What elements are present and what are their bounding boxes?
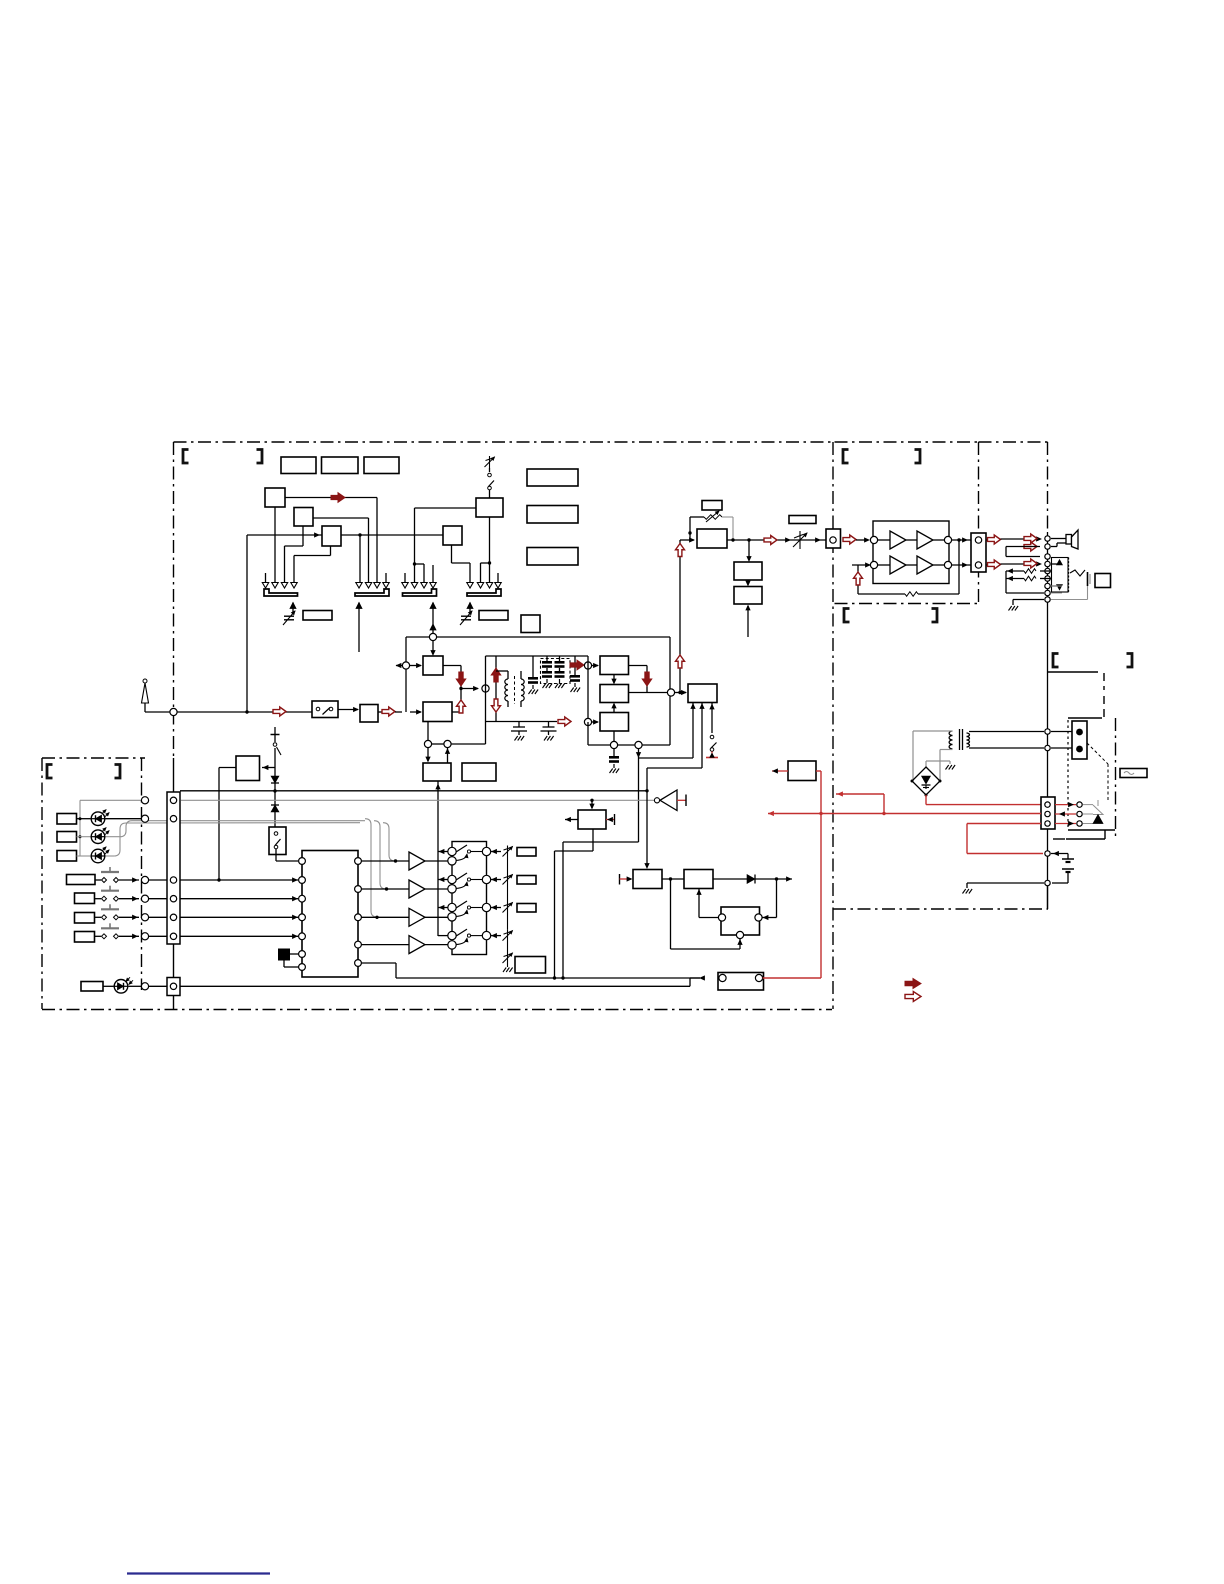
amp internal wires — [878, 539, 890, 541]
open red up arrow on 680 lower — [676, 655, 685, 668]
solid red down arrow at 647 — [642, 672, 652, 686]
ground at jack — [1013, 599, 1044, 601]
LED label box 2 — [57, 832, 77, 843]
amp output node R — [944, 536, 951, 543]
red battery loop — [967, 823, 1041, 825]
arrow junction into node — [461, 688, 478, 690]
filter caps inside dashed box — [546, 656, 548, 661]
bus group 2 wiper arrow long shaft — [356, 603, 362, 609]
trimmer cap group 1 — [284, 615, 294, 617]
small label box above decoder — [702, 501, 722, 511]
border: bottom-right chassis dash-dot — [833, 908, 1048, 910]
LED D3 — [77, 855, 91, 857]
power amp IC outline — [873, 521, 949, 584]
block E small — [443, 526, 462, 545]
IC bottom pin wire — [361, 962, 396, 964]
node at LC frame left — [482, 685, 489, 692]
jack switch contacts gray — [1051, 585, 1062, 587]
label box EE — [789, 516, 816, 524]
LED label box 1 — [57, 814, 77, 825]
bank right taps — [491, 851, 501, 853]
section label brackets front panel — [47, 765, 53, 779]
jack contact up arrow — [1057, 560, 1063, 566]
label box group 4 — [479, 611, 508, 621]
gray bus curves down to amp rows — [365, 819, 377, 917]
band switch unit 1 — [448, 847, 456, 855]
node AM out 1 — [424, 740, 431, 747]
connector block to amp — [826, 529, 841, 548]
wire switch to IC pin — [276, 860, 298, 862]
legend open signal arrow — [905, 992, 921, 1002]
DC jack circles — [1077, 802, 1082, 807]
trimmer 5 and ground — [507, 952, 509, 964]
block RF AMP A — [265, 488, 285, 507]
wire M right down to node — [629, 665, 648, 667]
block P system control — [688, 684, 717, 703]
block J IF amp — [423, 656, 443, 675]
speaker symbol — [1066, 535, 1072, 545]
feedback loop with variable resistor — [689, 517, 691, 540]
decoupling cap at node1 — [613, 749, 615, 757]
power feed box U — [633, 870, 662, 889]
border pass-through circles — [141, 797, 148, 804]
antenna wire to node on border — [145, 711, 170, 713]
wire into box C with arrow — [247, 534, 322, 536]
solid red right arrow to detector node — [570, 660, 584, 670]
band switch unit 3 — [448, 903, 456, 911]
node AM det in — [584, 718, 591, 725]
key switch 4 — [95, 935, 102, 937]
inverter driver — [654, 798, 659, 803]
block V regulator — [684, 870, 713, 889]
amp row 1 — [361, 860, 409, 862]
wire box B right to bus — [313, 517, 369, 519]
wire row2 to block P — [647, 767, 702, 769]
open red down arrow — [492, 699, 501, 712]
FM/AM switch box — [312, 701, 338, 718]
key row 1 wire — [149, 879, 298, 881]
solid red down arrow IF — [456, 672, 466, 686]
wire box B down jog — [302, 526, 304, 546]
supply rail horizontal — [180, 790, 647, 792]
block AA mute — [578, 810, 606, 829]
IR connector piece — [167, 978, 180, 996]
diode after box V — [713, 878, 747, 880]
arrow O to N — [613, 705, 615, 713]
IC right pins — [355, 858, 362, 865]
wire to speaker hot — [1001, 538, 1041, 540]
node detector in — [584, 662, 591, 669]
center tap ground — [925, 761, 927, 768]
LED label box 3 — [57, 851, 77, 862]
legend solid signal arrow — [905, 979, 921, 989]
osc switch bank outline — [452, 842, 487, 955]
junction on supply rail — [273, 789, 276, 792]
LC filter frame — [485, 656, 487, 744]
wire box S left down — [219, 767, 236, 769]
wire box D bottom jog to bus4 — [489, 517, 491, 583]
wire box D left to bus3 — [415, 507, 477, 509]
wire V bottom to loop — [698, 889, 700, 918]
B+ tick into box U — [619, 874, 621, 885]
border: power inlet section — [1048, 671, 1098, 673]
vertical 680 from FM row down to block P — [679, 540, 681, 693]
open red arrow speaker L — [986, 564, 988, 566]
arrow block Y up to node — [447, 748, 449, 763]
junction row wire — [588, 744, 670, 746]
switch above box D — [489, 456, 491, 468]
gray feed into block AA — [590, 799, 593, 802]
wide label box IF 1 — [527, 469, 578, 486]
block AA bottom loop — [592, 829, 594, 851]
red riser from remote block — [763, 977, 821, 979]
main connector bar — [167, 792, 180, 944]
amp triangle R2 — [917, 531, 933, 549]
amp L input feed — [852, 564, 870, 566]
arrow node into block M — [592, 665, 598, 667]
output connector block — [971, 533, 986, 572]
block O bottom tie — [613, 731, 615, 742]
label box row 1 — [281, 457, 316, 474]
label box row 3 — [364, 457, 399, 474]
block B — [294, 508, 313, 527]
muting amp 4 — [409, 936, 425, 954]
trimmer cap group 4 — [461, 615, 471, 617]
muting amp 3 — [409, 908, 425, 926]
solid red up arrow — [491, 668, 501, 682]
arrow CC to DD — [747, 580, 749, 585]
open red arrow at speaker — [1024, 534, 1037, 543]
amp outputs to connector — [952, 539, 971, 541]
LED D1 — [77, 818, 91, 820]
LED drive gray wire — [181, 799, 654, 801]
box U to box V wire — [662, 878, 684, 880]
open red arrow speaker R — [986, 539, 988, 541]
section label brackets speaker section — [844, 609, 850, 623]
key label box 4 — [75, 932, 95, 943]
node top of mixer — [406, 636, 670, 638]
wire node2 down to AGC row — [638, 749, 640, 843]
antenna symbol — [143, 679, 147, 683]
transformer primary leads — [913, 730, 953, 732]
node AM out 2 — [444, 740, 451, 747]
signal arrow RF (solid) — [331, 493, 345, 503]
amp row 4 — [361, 944, 409, 946]
border: main board dash-dot outline — [174, 441, 834, 443]
arrow node into block Y — [427, 748, 429, 761]
border: speaker/output connector line — [979, 441, 1048, 443]
block C converter — [322, 526, 341, 546]
amp row 3 — [361, 916, 409, 918]
trimmer chain right of bank — [507, 846, 509, 858]
LED D2 — [77, 836, 91, 838]
block L RF amp — [360, 705, 378, 723]
node before block P — [629, 692, 669, 694]
jack spring contact — [1070, 570, 1085, 576]
resistor feed 1 — [1040, 570, 1051, 572]
battery cells — [1051, 853, 1068, 855]
label box group 1 — [303, 611, 332, 621]
wire switch to block L with arrow — [338, 709, 358, 711]
crystal resonator — [278, 949, 290, 961]
band cap label box 2 — [517, 876, 536, 885]
bypass caps on LC bottom — [518, 722, 520, 728]
wire box C right to box E — [341, 534, 443, 536]
AC inlet socket — [1072, 721, 1087, 759]
bank common feeds from long vertical — [438, 851, 448, 853]
wire junction U-V down to loop bottom — [670, 879, 672, 949]
bridge rectifier D901 — [912, 767, 940, 795]
red branch upper — [836, 793, 884, 795]
chain switch — [273, 743, 277, 747]
block D osc — [476, 498, 503, 517]
IR wire to main board — [149, 985, 167, 987]
block CC — [734, 562, 762, 580]
arrow chain into box S — [262, 767, 275, 769]
AC plug label box with tilde — [1120, 769, 1147, 778]
key row 2 wire — [149, 898, 298, 900]
tuning bus group 1 varactor arrows — [265, 573, 267, 583]
jack contact down arrow — [1057, 585, 1063, 591]
row after decoder — [727, 539, 826, 541]
label box row 2 — [322, 457, 359, 474]
B+ tick at inverter — [677, 799, 686, 801]
section label brackets amplifier — [843, 450, 849, 464]
border: front panel section dash-dot — [42, 757, 145, 759]
open red arrow row 540 — [764, 536, 777, 545]
resistor feed 2 — [1040, 578, 1051, 580]
drop to block CC — [748, 540, 750, 560]
amp triangle L2 — [917, 556, 933, 574]
border: amplifier section dash-dot — [835, 441, 979, 443]
block K mixer — [423, 702, 452, 722]
tuning bus group 3 varactor arrows — [404, 573, 406, 583]
bus group 3 wiper arrow to node — [430, 603, 436, 609]
block S power control — [236, 756, 260, 781]
diode up — [271, 804, 279, 806]
battery holder node — [1045, 851, 1050, 856]
wire diode junction to loop right — [776, 879, 778, 918]
switch to block P third input — [711, 703, 713, 708]
key switch 1 — [95, 879, 101, 881]
footer rule — [127, 1572, 270, 1574]
open red arrow AM line — [558, 717, 571, 726]
block M FM det — [600, 656, 629, 675]
arrow out left of block X — [772, 770, 788, 772]
IF transformer line with arrows — [495, 656, 497, 722]
muting amp 1 — [409, 852, 425, 870]
wire node down into block J — [432, 641, 434, 653]
arrow M to N — [613, 675, 615, 683]
block J right wire down to junction — [443, 665, 461, 667]
arrow node into block J — [410, 665, 421, 667]
amp triangle R1 — [890, 531, 906, 549]
section label brackets main board — [183, 450, 189, 464]
amp input node R — [870, 536, 877, 543]
block X clock — [788, 761, 816, 781]
FM stereo row corner — [680, 539, 694, 541]
IC left pins — [299, 858, 306, 865]
key row 4 wire — [149, 935, 298, 937]
node junction 2 — [635, 741, 642, 748]
bus group 1 wiper arrow — [290, 603, 296, 609]
tuning bus group 2 varactor arrows — [385, 573, 387, 583]
band switch unit 4 — [448, 931, 456, 939]
wide label box IF 2 — [527, 506, 578, 524]
key switch 3 — [95, 916, 102, 918]
mains transformer T901 — [949, 731, 952, 736]
DC jack switch symbol — [1083, 804, 1093, 806]
open red arrow return — [1024, 542, 1037, 551]
gray LED wire curves to bus — [120, 821, 365, 837]
bus group 3 upper feeds — [414, 508, 416, 583]
wide label box IF 3 — [527, 548, 578, 566]
open red arrow after connector — [843, 535, 856, 544]
tuning bus group 4 varactor arrows — [497, 573, 499, 583]
wire box E bottom jog to bus4 — [451, 545, 453, 563]
vertical node to junction row — [669, 697, 671, 746]
open red up arrow L input — [854, 572, 863, 585]
phones gray return — [1051, 599, 1088, 601]
arrow node into block K — [410, 711, 421, 713]
battery return node — [1045, 880, 1050, 885]
AC cord dashed — [1087, 743, 1108, 764]
arrow out left from node — [396, 665, 402, 667]
ground wire from battery return — [967, 882, 1044, 884]
speaker return loop wire — [1001, 563, 1041, 565]
amp output node L — [944, 561, 951, 568]
ceramic filter CF2 with ground — [574, 656, 576, 675]
wire node2 to LC frame — [451, 743, 486, 745]
headphone jack body — [1052, 558, 1069, 593]
amp input node L — [870, 561, 877, 568]
wire antenna row — [177, 711, 312, 713]
diode down — [271, 776, 279, 783]
block N — [600, 685, 629, 703]
ceramic filter CF1 with ground — [532, 656, 534, 677]
rectifier output red wire — [925, 795, 927, 805]
system micro IC — [302, 851, 358, 978]
remote out block with nodes — [718, 973, 764, 991]
wire long vertical from bus to antenna row — [246, 535, 248, 712]
speaker connector circles — [1045, 536, 1050, 541]
open arrow after block L — [378, 711, 382, 713]
wire node down to junction row — [587, 722, 589, 745]
key label box 1 — [67, 875, 96, 885]
arrow rail into box U — [646, 791, 648, 867]
IR remote label box — [81, 982, 103, 992]
key label box 3 — [75, 913, 95, 924]
amp row 2 — [361, 888, 409, 890]
phone plug — [1087, 572, 1089, 586]
LED common gray rail — [79, 800, 81, 856]
band big label box — [515, 957, 546, 974]
band cap label box 3 — [517, 904, 536, 913]
band switch unit 2 — [448, 875, 456, 883]
dashed filter group box — [541, 659, 571, 684]
block Y detector — [423, 763, 451, 781]
arrow out left of block AA — [565, 819, 578, 821]
IR receiver diode — [103, 985, 114, 987]
transformer secondary leads to connector — [969, 731, 1044, 733]
chassis link down — [1047, 886, 1049, 909]
block Z — [462, 763, 496, 781]
section label brackets power section — [1053, 654, 1059, 668]
volume trimmer on row — [799, 531, 801, 549]
open red up arrow on 680 upper — [676, 544, 685, 557]
feedback resistor loop — [858, 593, 905, 595]
open red up arrow below junction — [457, 700, 466, 713]
gray rail to top row — [80, 799, 141, 801]
feed up into DD — [747, 606, 749, 637]
band cap label box 1 — [517, 848, 536, 857]
key label box 2 — [75, 893, 95, 904]
wire box C bottom jog — [330, 546, 332, 556]
B+ tick below switch — [711, 752, 713, 758]
block K down to node — [427, 722, 429, 741]
wire AGC down-left to bottom rail — [563, 841, 639, 843]
block O — [600, 713, 629, 732]
long vertical from block Y bottom — [437, 781, 439, 936]
small label box G — [521, 615, 540, 633]
B+ tick right of block AA — [606, 819, 614, 821]
muting amp 2 — [409, 880, 425, 898]
key row 3 wire — [149, 916, 298, 918]
IF transformer T1 — [505, 679, 508, 685]
signal open arrow antenna — [273, 707, 286, 716]
IR border circle — [141, 983, 148, 990]
power connector 3pin — [1041, 797, 1055, 829]
loop block with nodes — [721, 907, 760, 935]
vertical 670 node to y637 — [669, 637, 671, 689]
node junction 1 — [610, 741, 617, 748]
power switch box — [269, 827, 286, 855]
bus group 4 wiper arrow — [467, 603, 473, 609]
wire AGC row right to block P — [639, 757, 694, 759]
node left of block J — [405, 637, 407, 712]
arrow node into block O — [592, 721, 598, 723]
wire box A down — [274, 507, 276, 583]
B+ red bus row — [768, 813, 1041, 815]
red links to DC jack — [1055, 804, 1076, 806]
block DD — [734, 587, 762, 605]
key switch 2 — [95, 898, 102, 900]
wire box A to bus with arrow — [285, 497, 377, 499]
block BB decoder — [697, 529, 727, 548]
plug tip label box — [1095, 574, 1111, 588]
return bus wires — [1005, 571, 1007, 593]
amp triangle L1 — [890, 556, 906, 574]
supply tick top of chain — [271, 734, 280, 736]
